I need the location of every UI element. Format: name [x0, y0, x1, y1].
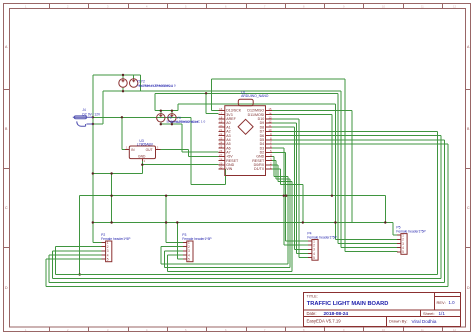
title block row dividers	[304, 310, 461, 317]
regulator U3 L7805ABV	[129, 146, 155, 159]
label Y3 Y4	[166, 115, 205, 124]
svg-text:L7805ABV: L7805ABV	[137, 142, 154, 146]
usb symbol	[238, 99, 253, 106]
title block	[304, 293, 461, 327]
transducer Y3	[157, 114, 165, 122]
wire bus1	[80, 196, 386, 275]
wire Y2 top stub	[122, 75, 124, 79]
svg-text:C: C	[5, 206, 8, 210]
wire U3 OUT to +5V	[160, 150, 218, 157]
wire echo2 long run to P5 pin4	[178, 104, 397, 239]
svg-text:30: 30	[219, 166, 223, 170]
svg-text:Viral Dodhia: Viral Dodhia	[412, 319, 437, 324]
wire pair2 bottom rail to A7	[161, 122, 219, 152]
connector P2	[101, 233, 131, 262]
svg-text:Female header1*5P: Female header1*5P	[307, 235, 337, 239]
wire GND staircase to P3 pin2	[161, 157, 288, 264]
wire D11 to P4 pin1	[272, 115, 332, 196]
connector P3	[182, 233, 212, 262]
node 3v3 tee	[205, 92, 207, 94]
wire P3 pin1 feed	[166, 196, 183, 243]
svg-text:5: 5	[188, 257, 190, 261]
nano right pin stubs	[266, 111, 273, 170]
svg-text:EasyEDA V5.7.19: EasyEDA V5.7.19	[307, 319, 342, 324]
wire D0 staircase to P3 pin4	[168, 165, 293, 272]
node Y3 top	[160, 110, 162, 112]
wire D10 to P4 pin2	[272, 119, 308, 258]
svg-text:Date:: Date:	[307, 311, 317, 316]
node Y2 top	[122, 74, 124, 76]
node bus1 b	[165, 195, 167, 197]
svg-text:Female header1*5P: Female header1*5P	[396, 229, 426, 233]
svg-text:2018-08-24: 2018-08-24	[324, 311, 349, 317]
svg-text:D: D	[5, 286, 8, 290]
transducer Y1	[130, 79, 138, 87]
node drop join	[79, 273, 81, 275]
diamond icsp	[238, 119, 253, 134]
svg-text:Female header1*5P: Female header1*5P	[182, 237, 212, 241]
wire D4 big loop to P3 pin5	[46, 144, 448, 287]
wire D8 big loop to P2 pin5	[272, 127, 308, 249]
svg-text:1/1: 1/1	[439, 311, 446, 316]
node bus1 c	[283, 195, 285, 197]
node bus2 c	[302, 221, 304, 223]
svg-text:C: C	[467, 206, 470, 210]
nano right pin names	[247, 109, 265, 172]
node U3 gnd	[141, 164, 143, 166]
wire main left vertical (jack/gnd column)	[92, 75, 94, 243]
node Y2 bottom	[122, 90, 124, 92]
node bus2 b	[165, 221, 167, 223]
wire VIN path	[191, 117, 225, 184]
node jack minus	[92, 123, 94, 125]
svg-text:OUT: OUT	[146, 148, 153, 152]
wire P3 pin5 feed	[177, 223, 183, 260]
nano right pin numbers	[268, 107, 272, 170]
wire bus1 right corner	[384, 196, 386, 223]
node Y3 bottom	[160, 123, 162, 125]
svg-text:ULTRASONIC SR04: ULTRASONIC SR04	[170, 120, 199, 124]
node bus1 a	[110, 195, 112, 197]
wire jack pin2 riser	[93, 91, 103, 124]
wire Y-pair1 top rail	[93, 74, 123, 76]
wire echo1 long run to P5 pin2	[141, 91, 398, 248]
label Y1 Y2	[137, 79, 176, 88]
svg-text:5: 5	[107, 257, 109, 261]
svg-text:D: D	[467, 286, 470, 290]
connector P4	[307, 232, 337, 261]
wire D5 big loop to P2 pin2	[49, 140, 445, 283]
node Vin tee	[121, 116, 123, 118]
wire D7 big loop to P2 pin4	[56, 131, 438, 274]
svg-text:Female header1*5P: Female header1*5P	[101, 237, 131, 241]
node bus2 f	[176, 221, 178, 223]
title block frame	[304, 293, 461, 327]
wire D9 to P4 pin3	[272, 123, 308, 253]
wire P2 pin1 feed	[93, 242, 102, 244]
transducer Y2	[119, 79, 127, 87]
nano left pin stubs	[219, 111, 225, 170]
svg-text:5: 5	[402, 250, 404, 254]
svg-text:REV:: REV:	[437, 300, 446, 305]
wire pair2 top rail	[155, 111, 178, 114]
svg-text:1.0: 1.0	[449, 300, 456, 305]
wire bus2	[93, 223, 401, 236]
node jack plus	[92, 116, 94, 118]
svg-text:HC-SR04 ULTRASONIC: HC-SR04 ULTRASONIC	[139, 84, 174, 88]
wire D3 to P4 pin4	[272, 148, 308, 245]
node bus2 e	[334, 221, 336, 223]
wire U3 GND net	[93, 161, 219, 174]
svg-text:D1/TX: D1/TX	[254, 167, 265, 171]
wire D1 staircase to bus2	[272, 169, 303, 222]
wire pair1 bottom rail	[103, 90, 141, 92]
wire +V rail to U3 IN	[93, 117, 191, 149]
wire Y2 bottom stub	[122, 87, 124, 91]
wire D12 to P5 pin1	[272, 111, 352, 223]
node bus2 a	[92, 221, 94, 223]
wire D13 loop to P5 pin5	[212, 79, 398, 252]
title block REV cell	[435, 293, 461, 311]
wire gnd link	[111, 174, 113, 223]
wire D6 big loop to P2 pin3	[52, 136, 441, 279]
title block drawnby divider	[386, 317, 388, 327]
svg-text:TRAFFIC LIGHT MAIN BOARD: TRAFFIC LIGHT MAIN BOARD	[307, 301, 389, 307]
node bus1 e	[331, 195, 333, 197]
nano left pin numbers	[219, 107, 223, 170]
svg-text:VIN: VIN	[226, 167, 232, 171]
op-amp U1 arduino nano body	[225, 106, 266, 176]
node bus1 d	[285, 195, 287, 197]
svg-text:ARDUINO_NANO: ARDUINO_NANO	[241, 94, 269, 98]
connector P5	[396, 226, 426, 255]
title block sheet divider	[420, 310, 422, 317]
node gnd corner	[92, 172, 94, 174]
wire RESET staircase to P3 pin3	[164, 161, 290, 268]
node Y4 top	[171, 110, 173, 112]
wire D2 to P4 pin5	[272, 152, 308, 241]
connector J4 DC jack	[73, 116, 93, 126]
svg-text:Drawn By:: Drawn By:	[389, 319, 407, 324]
svg-text:5: 5	[313, 256, 315, 260]
svg-text:DC 9V / 12V: DC 9V / 12V	[82, 112, 101, 116]
svg-text:Sheet:: Sheet:	[423, 311, 435, 316]
node gnd link bottom	[110, 221, 112, 223]
node gnd link top	[110, 172, 112, 174]
transducer Y4	[168, 114, 176, 122]
node bus2 d	[384, 221, 386, 223]
wire 3V3 branch	[206, 93, 218, 113]
wire trig2 long run to P5 pin3	[155, 93, 398, 243]
node Y4 bottom	[171, 123, 173, 125]
wire Y1 jog	[123, 75, 141, 91]
svg-text:TITLE:: TITLE:	[307, 294, 318, 298]
nano left pin names	[226, 109, 242, 172]
